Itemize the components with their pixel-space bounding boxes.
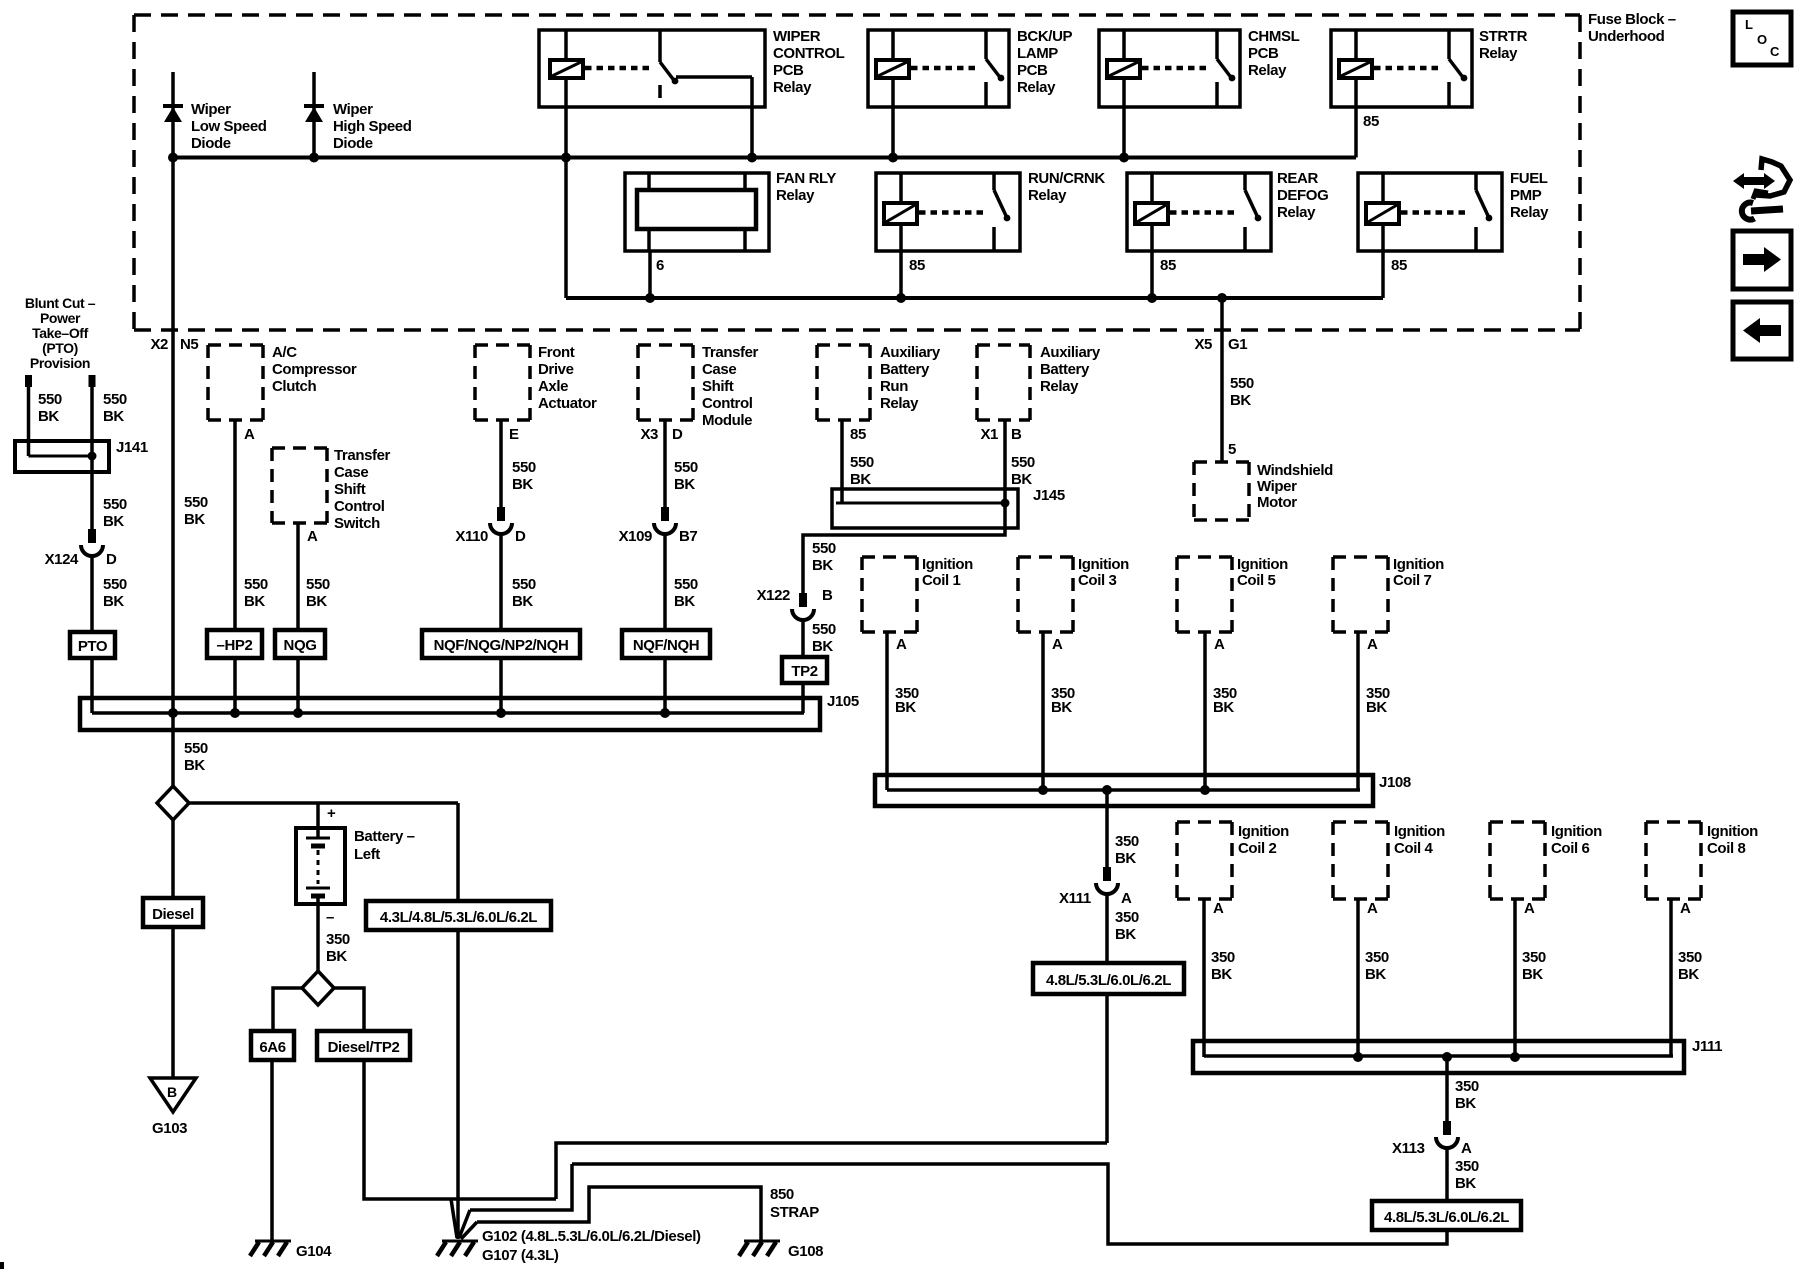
relay - wiper control pcb bbox=[539, 30, 765, 107]
wire diamond to diesel/tp2 bbox=[334, 988, 364, 1031]
relay - chmsl pcb bbox=[1099, 30, 1240, 107]
svg-text:Take–Off: Take–Off bbox=[32, 325, 88, 341]
ground strap 850 to G108 bbox=[477, 1187, 761, 1241]
wire 4.3L box to G102 bbox=[456, 930, 460, 1239]
svg-text:BK: BK bbox=[674, 476, 695, 493]
option box 4.3L/4.8L/5.3L/6.0L/6.2L bbox=[366, 901, 551, 930]
svg-text:BK: BK bbox=[1011, 471, 1032, 488]
svg-text:BK: BK bbox=[1522, 966, 1543, 983]
svg-text:Auxiliary: Auxiliary bbox=[880, 344, 941, 361]
svg-text:B: B bbox=[822, 587, 833, 604]
wire fan diagonal from diesel/tp2 branch bbox=[451, 1199, 457, 1238]
svg-text:350: 350 bbox=[1678, 949, 1702, 966]
svg-text:BK: BK bbox=[306, 593, 327, 610]
connector X109 bbox=[661, 507, 669, 521]
svg-text:85: 85 bbox=[1363, 113, 1379, 130]
splice diamond upper bbox=[157, 786, 189, 820]
svg-text:Coil 7: Coil 7 bbox=[1393, 572, 1431, 589]
component ignition coil 5 (dashed) bbox=[1177, 555, 1232, 559]
svg-text:550: 550 bbox=[103, 391, 127, 408]
svg-text:Axle: Axle bbox=[538, 378, 568, 395]
battery - left bbox=[296, 828, 345, 904]
wire X2 drop from bus1 to J105 bbox=[171, 158, 175, 714]
option box -HP2 bbox=[207, 630, 262, 658]
wire TP2 to J105 bbox=[801, 683, 805, 713]
ground G103 triangle bbox=[150, 1078, 196, 1112]
svg-text:G1: G1 bbox=[1228, 336, 1247, 353]
svg-text:BK: BK bbox=[512, 593, 533, 610]
svg-text:X110: X110 bbox=[455, 528, 488, 545]
svg-text:Battery: Battery bbox=[880, 361, 930, 378]
component ignition coil 8 (dashed) bbox=[1646, 820, 1701, 824]
svg-text:550: 550 bbox=[512, 459, 536, 476]
option box NQF/NQH bbox=[622, 630, 710, 658]
svg-text:STRTR: STRTR bbox=[1479, 28, 1528, 45]
svg-text:4.3L/4.8L/5.3L/6.0L/6.2L: 4.3L/4.8L/5.3L/6.0L/6.2L bbox=[380, 909, 537, 926]
svg-text:A: A bbox=[1214, 636, 1225, 653]
svg-text:BK: BK bbox=[850, 471, 871, 488]
svg-text:X5: X5 bbox=[1194, 336, 1212, 353]
svg-text:BK: BK bbox=[812, 557, 833, 574]
svg-text:BK: BK bbox=[1115, 850, 1136, 867]
svg-text:550: 550 bbox=[1011, 454, 1035, 471]
svg-text:Switch: Switch bbox=[334, 515, 380, 532]
icon tools/arrows squiggle bbox=[1740, 177, 1768, 185]
svg-text:Run: Run bbox=[880, 378, 908, 395]
page artifact mark bbox=[0, 1262, 4, 1269]
junction dots bus lower bbox=[645, 293, 655, 303]
svg-text:Power: Power bbox=[40, 310, 81, 326]
svg-text:BK: BK bbox=[1051, 699, 1072, 716]
svg-text:350: 350 bbox=[1115, 833, 1139, 850]
svg-text:TP2: TP2 bbox=[791, 663, 817, 680]
svg-text:Ignition: Ignition bbox=[1551, 823, 1602, 840]
wire diamond to diesel box bbox=[171, 819, 175, 898]
svg-text:G103: G103 bbox=[152, 1120, 187, 1137]
wire bus1 to bus2 left drop bbox=[564, 158, 568, 299]
wire ignition coil 7 to J108 bbox=[1356, 632, 1360, 790]
svg-text:J141: J141 bbox=[116, 439, 148, 456]
wire strtr relay to bus bbox=[1354, 107, 1358, 158]
fuse block - underhood dashed border bbox=[134, 13, 1580, 17]
svg-text:85: 85 bbox=[909, 257, 925, 274]
wire NQF box to J105 bbox=[499, 658, 503, 713]
svg-text:X2: X2 bbox=[150, 336, 168, 353]
ground G102/G107 bbox=[442, 1240, 478, 1243]
wire ignition coil 6 to J111 bbox=[1513, 899, 1517, 1057]
svg-text:Battery –: Battery – bbox=[354, 828, 415, 845]
svg-text:A: A bbox=[1121, 890, 1132, 907]
svg-text:L: L bbox=[1745, 17, 1753, 32]
svg-text:Transfer: Transfer bbox=[334, 447, 391, 464]
component transfer case shift control switch (dashed) bbox=[272, 446, 327, 450]
wire X124 to PTO box bbox=[90, 556, 94, 632]
svg-text:G108: G108 bbox=[788, 1243, 823, 1260]
wire X111 branch to ground fan bbox=[556, 1143, 1107, 1199]
svg-text:6: 6 bbox=[656, 257, 664, 274]
relay - strtr bbox=[1331, 30, 1472, 107]
svg-text:350: 350 bbox=[1455, 1158, 1479, 1175]
svg-text:X122: X122 bbox=[757, 587, 790, 604]
svg-text:550: 550 bbox=[1230, 375, 1254, 392]
battery positive lead bbox=[316, 803, 320, 828]
svg-text:J145: J145 bbox=[1033, 487, 1065, 504]
svg-text:BK: BK bbox=[244, 593, 265, 610]
svg-text:DEFOG: DEFOG bbox=[1277, 187, 1328, 204]
svg-text:Case: Case bbox=[334, 464, 368, 481]
svg-text:550: 550 bbox=[812, 540, 836, 557]
svg-text:B7: B7 bbox=[679, 528, 697, 545]
relay - bck/up lamp pcb bbox=[868, 30, 1009, 107]
svg-text:C: C bbox=[1770, 44, 1780, 59]
svg-text:850: 850 bbox=[770, 1186, 794, 1203]
svg-text:BK: BK bbox=[38, 408, 59, 425]
svg-text:Wiper: Wiper bbox=[333, 101, 373, 118]
svg-text:Low Speed: Low Speed bbox=[191, 118, 267, 135]
wire J141 to X124 bbox=[90, 472, 94, 529]
wire rear defog relay to bus bbox=[1150, 251, 1154, 298]
wire fan relay to bus bbox=[648, 251, 652, 298]
svg-text:A: A bbox=[1213, 900, 1224, 917]
svg-text:Ignition: Ignition bbox=[1237, 556, 1288, 573]
svg-text:BK: BK bbox=[103, 513, 124, 530]
svg-text:BK: BK bbox=[1365, 966, 1386, 983]
svg-text:550: 550 bbox=[674, 576, 698, 593]
svg-text:Fuse Block –: Fuse Block – bbox=[1588, 11, 1676, 28]
svg-text:FUEL: FUEL bbox=[1510, 170, 1548, 187]
svg-text:B: B bbox=[167, 1084, 177, 1100]
svg-text:BK: BK bbox=[1455, 1095, 1476, 1112]
svg-text:E: E bbox=[509, 426, 519, 443]
svg-text:550: 550 bbox=[306, 576, 330, 593]
svg-text:G107 (4.3L): G107 (4.3L) bbox=[482, 1247, 559, 1264]
wire fan diagonal strap bbox=[461, 1222, 477, 1239]
svg-text:BK: BK bbox=[512, 476, 533, 493]
svg-text:Case: Case bbox=[702, 361, 736, 378]
svg-text:BK: BK bbox=[1230, 392, 1251, 409]
connector X111 bbox=[1103, 867, 1111, 881]
connector X110 bbox=[497, 507, 505, 521]
svg-text:Diode: Diode bbox=[191, 135, 231, 152]
wire diamond to 6A6 bbox=[273, 988, 302, 1031]
wire wiper relay coil to bus bbox=[564, 107, 568, 158]
svg-text:Control: Control bbox=[334, 498, 385, 515]
wire chmsl relay to bus bbox=[1122, 107, 1126, 158]
svg-text:Motor: Motor bbox=[1257, 494, 1297, 511]
svg-text:A: A bbox=[1461, 1140, 1472, 1157]
wire NQF/NQH to J105 bbox=[663, 658, 667, 713]
option box 4.8L/5.3L/6.0L/6.2L (left) bbox=[1033, 963, 1184, 994]
svg-text:LAMP: LAMP bbox=[1017, 45, 1058, 62]
svg-text:350: 350 bbox=[1522, 949, 1546, 966]
svg-text:350: 350 bbox=[326, 931, 350, 948]
svg-text:Clutch: Clutch bbox=[272, 378, 317, 395]
svg-text:FAN RLY: FAN RLY bbox=[776, 170, 836, 187]
svg-text:Blunt Cut –: Blunt Cut – bbox=[25, 295, 96, 311]
junction dots J108 bbox=[1038, 785, 1048, 795]
svg-text:Underhood: Underhood bbox=[1588, 28, 1665, 45]
svg-text:BK: BK bbox=[1455, 1175, 1476, 1192]
svg-text:X109: X109 bbox=[619, 528, 652, 545]
svg-text:STRAP: STRAP bbox=[770, 1204, 819, 1221]
svg-text:Ignition: Ignition bbox=[922, 556, 973, 573]
svg-text:550: 550 bbox=[244, 576, 268, 593]
svg-text:4.8L/5.3L/6.0L/6.2L: 4.8L/5.3L/6.0L/6.2L bbox=[1384, 1209, 1509, 1226]
svg-text:Ignition: Ignition bbox=[1394, 823, 1445, 840]
svg-text:J111: J111 bbox=[1692, 1038, 1722, 1055]
svg-text:A/C: A/C bbox=[272, 344, 297, 361]
svg-text:Coil 6: Coil 6 bbox=[1551, 840, 1589, 857]
wire J145 exit to X122 bbox=[803, 503, 1005, 593]
component auxiliary battery relay (dashed) bbox=[977, 343, 1030, 347]
option box 6A6 bbox=[251, 1031, 294, 1060]
relay - fuel pmp bbox=[1358, 173, 1502, 251]
svg-text:350: 350 bbox=[1365, 949, 1389, 966]
option box NQF/NQG/NP2/NQH bbox=[422, 630, 580, 658]
component A/C compressor clutch (dashed) bbox=[208, 343, 263, 347]
battery negative lead bbox=[316, 904, 320, 971]
wire run/crnk relay to bus bbox=[899, 251, 903, 298]
svg-text:85: 85 bbox=[1391, 257, 1407, 274]
svg-text:Left: Left bbox=[354, 846, 380, 863]
wire fuel pmp relay to bus bbox=[1381, 251, 1385, 298]
splice J141 bbox=[15, 441, 109, 472]
component auxiliary battery run relay (dashed) bbox=[817, 343, 870, 347]
svg-text:A: A bbox=[896, 636, 907, 653]
svg-text:RUN/CRNK: RUN/CRNK bbox=[1028, 170, 1105, 187]
svg-text:BCK/UP: BCK/UP bbox=[1017, 28, 1072, 45]
wire wiper relay switch to bus bbox=[750, 107, 754, 158]
svg-text:J105: J105 bbox=[827, 693, 859, 710]
svg-text:350: 350 bbox=[1115, 909, 1139, 926]
wire 4.8L right box return to ground bbox=[572, 1164, 1447, 1244]
svg-text:350: 350 bbox=[1211, 949, 1235, 966]
icon LOC box bbox=[1733, 12, 1791, 65]
wire diesel box to G103 bbox=[171, 927, 175, 1078]
wire diamond to 4.3L drop bbox=[189, 801, 458, 805]
wire 4.8L box down to ground fan bbox=[1105, 994, 1109, 1143]
wire J108 to X111 bbox=[1105, 790, 1109, 867]
wire X111 to 4.8L box bbox=[1105, 894, 1109, 963]
wire X109 to NQF/NQH box bbox=[663, 534, 667, 630]
svg-text:Coil 5: Coil 5 bbox=[1237, 572, 1275, 589]
svg-text:Wiper: Wiper bbox=[1257, 478, 1297, 495]
svg-text:X111: X111 bbox=[1059, 890, 1091, 907]
svg-text:550: 550 bbox=[512, 576, 536, 593]
wire bck/up relay to bus bbox=[891, 107, 895, 158]
ground G108 bbox=[744, 1240, 780, 1243]
svg-text:Battery: Battery bbox=[1040, 361, 1090, 378]
svg-text:550: 550 bbox=[674, 459, 698, 476]
svg-text:A: A bbox=[244, 426, 255, 443]
splice diamond lower bbox=[302, 971, 334, 1005]
wire fan diagonal from J111 branch bbox=[459, 1210, 470, 1238]
wire X113 to 4.8L box bbox=[1445, 1148, 1449, 1201]
svg-text:Diesel/TP2: Diesel/TP2 bbox=[328, 1039, 400, 1056]
diode - wiper high speed bbox=[312, 72, 316, 158]
svg-text:Ignition: Ignition bbox=[1393, 556, 1444, 573]
svg-text:Ignition: Ignition bbox=[1707, 823, 1758, 840]
component front drive axle actuator (dashed) bbox=[475, 343, 530, 347]
svg-text:X1: X1 bbox=[980, 426, 998, 443]
svg-text:Ignition: Ignition bbox=[1078, 556, 1129, 573]
connector X124 bbox=[88, 529, 96, 543]
svg-text:G104: G104 bbox=[296, 1243, 332, 1260]
svg-text:(PTO): (PTO) bbox=[42, 340, 78, 356]
wire diesel/tp2 to ground fan bbox=[364, 1060, 556, 1199]
svg-text:BK: BK bbox=[1366, 699, 1387, 716]
component ignition coil 4 (dashed) bbox=[1333, 820, 1388, 824]
svg-text:A: A bbox=[1524, 900, 1535, 917]
component ignition coil 6 (dashed) bbox=[1490, 820, 1545, 824]
svg-text:NQF/NQH: NQF/NQH bbox=[633, 637, 699, 654]
svg-text:A: A bbox=[1367, 900, 1378, 917]
svg-text:Shift: Shift bbox=[702, 378, 734, 395]
svg-text:Coil 2: Coil 2 bbox=[1238, 840, 1276, 857]
wire X5 drop to wiper motor bbox=[1220, 298, 1224, 462]
component ignition coil 3 (dashed) bbox=[1018, 555, 1073, 559]
svg-text:D: D bbox=[106, 551, 117, 568]
svg-text:Auxiliary: Auxiliary bbox=[1040, 344, 1101, 361]
svg-text:6A6: 6A6 bbox=[259, 1039, 285, 1056]
wire aux battery relay to J145 bbox=[1003, 420, 1007, 503]
svg-text:Drive: Drive bbox=[538, 361, 574, 378]
svg-text:Wiper: Wiper bbox=[191, 101, 231, 118]
relay - fan rly bbox=[625, 173, 769, 251]
svg-text:NQG: NQG bbox=[284, 637, 317, 654]
wire PTO to J105 bbox=[90, 658, 94, 713]
wire -HP2 to J105 bbox=[233, 658, 237, 713]
svg-text:BK: BK bbox=[674, 593, 695, 610]
svg-text:85: 85 bbox=[1160, 257, 1176, 274]
svg-text:4.8L/5.3L/6.0L/6.2L: 4.8L/5.3L/6.0L/6.2L bbox=[1046, 972, 1171, 989]
option box NQG bbox=[275, 630, 325, 658]
svg-text:Relay: Relay bbox=[1248, 62, 1287, 79]
wire ignition coil 4 to J111 bbox=[1356, 899, 1360, 1057]
svg-text:85: 85 bbox=[850, 426, 866, 443]
svg-text:550: 550 bbox=[812, 621, 836, 638]
splice J145 bbox=[832, 489, 1018, 528]
component transfer case shift control module (dashed) bbox=[638, 343, 693, 347]
svg-text:BK: BK bbox=[184, 511, 205, 528]
svg-text:550: 550 bbox=[850, 454, 874, 471]
wire ignition coil 3 to J108 bbox=[1041, 632, 1045, 790]
svg-text:PCB: PCB bbox=[1017, 62, 1048, 79]
option box 4.8L/5.3L/6.0L/6.2L (right) bbox=[1372, 1201, 1521, 1230]
svg-text:A: A bbox=[307, 528, 318, 545]
svg-text:Coil 8: Coil 8 bbox=[1707, 840, 1745, 857]
bus wire upper (fuse block) bbox=[173, 156, 1356, 160]
wire ignition coil 5 to J108 bbox=[1203, 632, 1207, 790]
relay - rear defog bbox=[1127, 173, 1271, 251]
svg-text:D: D bbox=[515, 528, 526, 545]
connector X122 bbox=[799, 593, 807, 607]
svg-text:Front: Front bbox=[538, 344, 575, 361]
option box Diesel bbox=[143, 898, 203, 927]
svg-text:Compressor: Compressor bbox=[272, 361, 357, 378]
svg-text:REAR: REAR bbox=[1277, 170, 1318, 187]
svg-text:X113: X113 bbox=[1392, 1140, 1425, 1157]
svg-text:A: A bbox=[1680, 900, 1691, 917]
svg-text:550: 550 bbox=[184, 740, 208, 757]
svg-text:BK: BK bbox=[1678, 966, 1699, 983]
svg-text:Diesel: Diesel bbox=[152, 906, 194, 923]
ground G104 bbox=[255, 1240, 291, 1243]
svg-text:Relay: Relay bbox=[1017, 79, 1056, 96]
svg-text:X124: X124 bbox=[45, 551, 79, 568]
svg-text:WIPER: WIPER bbox=[773, 28, 821, 45]
junction dots J111 bbox=[1353, 1052, 1363, 1062]
svg-text:J108: J108 bbox=[1379, 774, 1411, 791]
svg-text:BK: BK bbox=[326, 948, 347, 965]
svg-text:Relay: Relay bbox=[776, 187, 815, 204]
svg-text:BK: BK bbox=[1211, 966, 1232, 983]
svg-text:D: D bbox=[672, 426, 683, 443]
svg-text:PMP: PMP bbox=[1510, 187, 1542, 204]
option box Diesel/TP2 bbox=[317, 1031, 410, 1060]
wire transfer switch to NQG bbox=[296, 522, 300, 630]
svg-text:CONTROL: CONTROL bbox=[773, 45, 845, 62]
svg-text:BK: BK bbox=[812, 638, 833, 655]
relay - run/crnk bbox=[876, 173, 1020, 251]
svg-text:Relay: Relay bbox=[773, 79, 812, 96]
svg-text:BK: BK bbox=[1115, 926, 1136, 943]
svg-text:BK: BK bbox=[103, 593, 124, 610]
svg-text:Relay: Relay bbox=[1479, 45, 1518, 62]
svg-text:Module: Module bbox=[702, 412, 752, 429]
wire ignition coil 8 to J111 bbox=[1669, 899, 1673, 1057]
svg-text:X3: X3 bbox=[640, 426, 658, 443]
wire a/c clutch to -HP2 bbox=[233, 420, 237, 630]
diode - wiper low speed bbox=[171, 72, 175, 158]
wire X122 to TP2 bbox=[801, 620, 805, 657]
svg-text:High Speed: High Speed bbox=[333, 118, 412, 135]
svg-text:–: – bbox=[326, 909, 334, 926]
icon arrow right box bbox=[1733, 231, 1791, 289]
svg-text:Coil 4: Coil 4 bbox=[1394, 840, 1433, 857]
svg-text:BK: BK bbox=[103, 408, 124, 425]
svg-text:A: A bbox=[1052, 636, 1063, 653]
blunt cut stub right bbox=[89, 375, 96, 387]
wire ignition coil 2 to J111 bbox=[1202, 899, 1206, 1057]
svg-text:O: O bbox=[1757, 32, 1767, 47]
svg-text:NQF/NQG/NP2/NQH: NQF/NQG/NP2/NQH bbox=[434, 637, 569, 654]
icon arrow left box bbox=[1733, 302, 1791, 359]
svg-text:Relay: Relay bbox=[1510, 204, 1549, 221]
svg-text:Relay: Relay bbox=[880, 395, 919, 412]
component ignition coil 1 (dashed) bbox=[862, 555, 917, 559]
svg-text:A: A bbox=[1367, 636, 1378, 653]
svg-text:+: + bbox=[327, 805, 336, 822]
svg-text:BK: BK bbox=[1213, 699, 1234, 716]
svg-text:BK: BK bbox=[895, 699, 916, 716]
option box TP2 bbox=[782, 657, 827, 683]
bus wire lower (fuse block) bbox=[566, 296, 1383, 300]
wire 6A6 to G104 bbox=[270, 1060, 274, 1241]
wire NQG to J105 bbox=[296, 658, 300, 713]
svg-text:350: 350 bbox=[1455, 1078, 1479, 1095]
svg-text:CHMSL: CHMSL bbox=[1248, 28, 1300, 45]
wire ignition coil 1 to J108 bbox=[885, 632, 889, 790]
svg-text:550: 550 bbox=[103, 576, 127, 593]
svg-text:Actuator: Actuator bbox=[538, 395, 597, 412]
svg-text:–HP2: –HP2 bbox=[217, 637, 253, 654]
wire transfer module to X109 bbox=[663, 420, 667, 507]
svg-text:Shift: Shift bbox=[334, 481, 366, 498]
svg-text:B: B bbox=[1011, 426, 1022, 443]
svg-text:Transfer: Transfer bbox=[702, 344, 759, 361]
svg-text:Relay: Relay bbox=[1028, 187, 1067, 204]
